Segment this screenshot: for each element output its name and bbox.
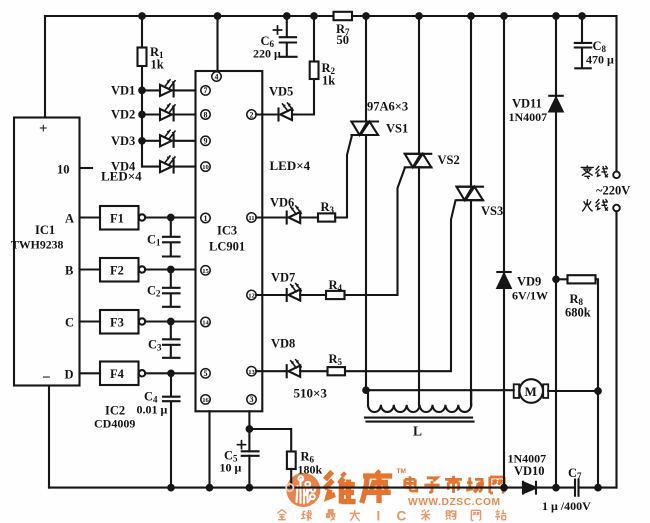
inductor core lines <box>365 418 474 422</box>
svg-text:0.01 μ: 0.01 μ <box>137 403 168 417</box>
svg-text:510×3: 510×3 <box>294 386 328 401</box>
svg-text:VD10: VD10 <box>514 464 545 478</box>
svg-text:3: 3 <box>250 395 254 404</box>
svg-text:1N4007: 1N4007 <box>509 110 548 124</box>
pin 1 <box>201 213 210 222</box>
wire: VS1 node to motor (tap bus) <box>363 387 369 393</box>
svg-text:VD9: VD9 <box>517 275 541 289</box>
svg-text:VD11: VD11 <box>512 97 542 111</box>
capacitor C3 <box>163 322 180 358</box>
svg-text:F3: F3 <box>110 316 124 330</box>
svg-text:D: D <box>65 368 74 382</box>
svg-text:97A6×3: 97A6×3 <box>367 100 408 114</box>
svg-text:CD4009: CD4009 <box>94 417 135 431</box>
pin 13 <box>247 367 256 376</box>
diode VD10 (in bottom wire) <box>523 482 536 494</box>
svg-text:R3: R3 <box>321 200 335 215</box>
svg-text:IC1: IC1 <box>35 223 55 237</box>
svg-text:VS1: VS1 <box>386 122 408 136</box>
LED VD5 (pin 2 row) <box>256 113 278 115</box>
capacitor C5 <box>242 451 259 456</box>
logo circle dzsc <box>286 473 320 507</box>
motor M <box>514 384 519 398</box>
pin 8 <box>201 110 210 119</box>
svg-text:14: 14 <box>202 320 209 327</box>
svg-text:1 μ /400V: 1 μ /400V <box>542 499 591 513</box>
diode VD9 (on its column) <box>501 13 507 19</box>
LED VD4 <box>142 166 160 168</box>
filter F1 <box>80 216 101 218</box>
capacitor C2 <box>163 270 180 307</box>
svg-text:1k: 1k <box>322 74 335 88</box>
triac VS2 <box>416 13 422 19</box>
svg-text:C3: C3 <box>148 338 162 353</box>
svg-text:A: A <box>65 212 74 226</box>
svg-text:5: 5 <box>204 369 208 378</box>
pin 14 <box>201 317 210 326</box>
wire: top supply rail right segment <box>352 15 617 17</box>
svg-text:WWW.DZSC.COM: WWW.DZSC.COM <box>408 497 501 508</box>
LED VD3 <box>139 138 145 144</box>
svg-text:C2: C2 <box>147 284 161 299</box>
capacitor C6 (electrolytic, from top rail) <box>284 13 290 19</box>
svg-text:VD1: VD1 <box>111 84 135 98</box>
resistor R1 with feed column <box>141 16 143 48</box>
resistor R4 <box>326 291 345 299</box>
capacitor C4 (to ground rail) <box>163 373 180 487</box>
svg-text:8: 8 <box>204 110 208 119</box>
svg-text:VD2: VD2 <box>111 108 135 122</box>
svg-text:6V/1W: 6V/1W <box>512 289 548 303</box>
wire: R3 to VS1 gate <box>335 136 352 218</box>
triac VS3 <box>468 13 474 19</box>
svg-text:TWH9238: TWH9238 <box>11 238 64 252</box>
IC3 pin circles <box>201 72 256 404</box>
svg-text:+: + <box>39 121 48 137</box>
wire: pin16 drop to ground rail <box>208 411 210 487</box>
svg-text:LC901: LC901 <box>209 240 245 254</box>
svg-text:1: 1 <box>204 214 208 223</box>
resistor R8 (horizontal, off VD11 column) <box>553 277 559 283</box>
svg-text:TM: TM <box>397 468 406 475</box>
svg-text:470 μ: 470 μ <box>586 53 614 67</box>
inductor L (tapped coil) <box>367 390 369 405</box>
svg-text:2: 2 <box>250 110 254 119</box>
pin 15 <box>201 266 210 275</box>
LED VD1 <box>139 88 145 94</box>
wire: IC1 minus drop to bottom rail <box>48 386 50 488</box>
svg-text:R5: R5 <box>329 352 343 367</box>
resistor R3 <box>318 213 335 221</box>
mains terminal: neutral (ling xian) <box>615 16 617 172</box>
filter F4 <box>80 372 101 374</box>
slogan row: quan qiu zui da IC cai gou wang zhan <box>277 510 506 521</box>
svg-text:C: C <box>397 509 407 523</box>
pin 5 <box>201 369 210 378</box>
LED VD8 (pin 13 row) <box>256 370 287 372</box>
pin 7 <box>201 86 210 95</box>
big brand: wei ku <box>324 471 392 504</box>
brand: dian zi shi chang wang <box>405 476 504 493</box>
svg-text:10: 10 <box>57 163 70 177</box>
pin 10 stub <box>80 167 93 169</box>
svg-text:1k: 1k <box>151 58 164 72</box>
filter F2 <box>80 268 101 270</box>
svg-text:VD8: VD8 <box>271 337 295 351</box>
resistor R5 <box>328 367 346 375</box>
svg-text:IC2: IC2 <box>105 404 125 418</box>
svg-text:50: 50 <box>337 33 350 47</box>
svg-text:LED×4: LED×4 <box>101 169 142 184</box>
capacitor C7 (in bottom wire) <box>575 480 579 496</box>
svg-text:F4: F4 <box>110 367 125 381</box>
svg-text:7: 7 <box>204 86 208 95</box>
svg-text:I: I <box>377 509 381 523</box>
svg-text:10: 10 <box>202 164 209 171</box>
wire: top supply rail left segment <box>45 15 334 17</box>
svg-text:180k: 180k <box>298 463 323 477</box>
svg-text:VD3: VD3 <box>111 134 135 148</box>
capacitor C8 (from top rail) <box>579 13 585 19</box>
svg-text:M: M <box>525 384 537 399</box>
resistor R2 (from top rail down) <box>311 13 317 19</box>
filter F3 <box>80 320 101 322</box>
IC1 TWH9238 box <box>14 118 80 386</box>
svg-text:680k: 680k <box>565 306 591 320</box>
IC3 LC901 box <box>196 71 263 411</box>
svg-text:VD5: VD5 <box>269 85 293 99</box>
svg-text:IC3: IC3 <box>217 224 237 238</box>
pin 11 <box>247 213 256 222</box>
wire: R4 to VS2 gate <box>345 168 405 295</box>
svg-text:VS3: VS3 <box>481 204 503 218</box>
LED VD7 (pin 12 row) <box>256 294 287 296</box>
svg-text:F2: F2 <box>110 264 124 278</box>
wire: bottom ground rail <box>49 487 575 489</box>
svg-text:12: 12 <box>248 293 255 300</box>
diode VD11 (on its column) <box>553 13 559 19</box>
wire: pin3 drop with C5 to ground rail <box>248 411 250 487</box>
pin 4 <box>212 72 221 81</box>
junction ring over logo <box>286 484 293 491</box>
wire: pin4 drop from top rail <box>216 16 218 71</box>
svg-text:C: C <box>65 316 74 330</box>
svg-text:B: B <box>65 264 73 278</box>
wire: left drop from rail to IC1 plus pin <box>44 16 46 118</box>
svg-text:~220V: ~220V <box>596 184 630 198</box>
pin 3 <box>247 395 256 404</box>
svg-text:220 μ: 220 μ <box>253 47 281 61</box>
svg-text:16: 16 <box>202 397 209 404</box>
mains terminal: live (huo xian) <box>613 205 620 212</box>
svg-text:LED×4: LED×4 <box>270 158 311 173</box>
LED VD2 <box>139 112 145 118</box>
pin 2 <box>247 110 256 119</box>
triac VS1 <box>363 13 369 19</box>
svg-text:−: − <box>42 370 51 386</box>
svg-text:C1: C1 <box>147 233 161 248</box>
resistor R7 (in series in top rail) <box>334 12 353 20</box>
svg-text:VS2: VS2 <box>438 153 460 167</box>
capacitor C1 <box>163 218 180 257</box>
pin 10 <box>201 162 210 171</box>
svg-text:13: 13 <box>248 369 255 376</box>
svg-text:15: 15 <box>202 268 209 275</box>
svg-text:9: 9 <box>204 137 208 146</box>
pin 9 <box>201 136 210 145</box>
svg-text:F1: F1 <box>110 212 124 226</box>
LED VD6 (pin 11 row) <box>256 216 287 218</box>
pin 12 <box>247 290 256 299</box>
svg-text:VD6: VD6 <box>270 196 294 210</box>
svg-text:11: 11 <box>248 215 254 222</box>
svg-text:L: L <box>413 424 422 439</box>
pin 16 <box>201 395 210 404</box>
svg-text:R4: R4 <box>329 278 343 293</box>
svg-text:VD7: VD7 <box>271 271 295 285</box>
wire: R5 to VS3 gate <box>345 201 456 372</box>
resistor R6 (off pin3 node) <box>249 429 291 452</box>
svg-text:4: 4 <box>215 72 219 81</box>
svg-text:10 μ: 10 μ <box>220 461 242 475</box>
svg-text:C7: C7 <box>568 466 582 481</box>
